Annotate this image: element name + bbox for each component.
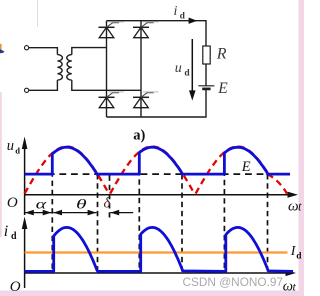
svg-text:O: O bbox=[10, 279, 21, 295]
label u_d (plot) bbox=[7, 138, 20, 156]
transformer T primary terminal bottom bbox=[25, 88, 29, 92]
dashed vertical firing 2 bbox=[138, 152, 140, 273]
label I_d bbox=[290, 244, 303, 261]
svg-text:E: E bbox=[241, 159, 251, 175]
label R bbox=[216, 46, 227, 63]
dashed vertical sine zero delta bbox=[109, 176, 111, 218]
thyristor VT1 bbox=[99, 22, 125, 38]
dashed E level line bbox=[25, 173, 283, 175]
svg-text:d: d bbox=[180, 11, 186, 21]
svg-text:i: i bbox=[4, 223, 8, 240]
thyristor VT2 bbox=[133, 92, 159, 108]
label i_d (circuit) bbox=[174, 4, 186, 21]
red dashed sine tail bbox=[268, 174, 288, 194]
label delta bbox=[104, 196, 112, 212]
label a) caption bbox=[133, 128, 145, 144]
cursor artifact top-left bbox=[0, 44, 5, 53]
ud plot x-axis bbox=[25, 192, 298, 198]
svg-text:CSDN @NONO.97: CSDN @NONO.97 bbox=[183, 275, 283, 289]
dashed vertical extinction 2 bbox=[181, 174, 183, 272]
page background pink bottom edge bbox=[0, 291, 304, 296]
svg-text:u: u bbox=[7, 138, 14, 154]
id plot y-axis bbox=[22, 217, 28, 289]
wire secondary top to node a (bridge left leg midpoint) bbox=[72, 48, 107, 55]
current arrow i_d on top rail bbox=[189, 18, 198, 24]
svg-text:i: i bbox=[174, 4, 178, 19]
blue ud waveform bbox=[25, 147, 290, 175]
svg-text:t: t bbox=[298, 199, 302, 213]
svg-text:E: E bbox=[217, 80, 228, 97]
orange average current line I_d bbox=[25, 251, 288, 253]
svg-text:d: d bbox=[15, 146, 20, 156]
svg-text:a): a) bbox=[133, 128, 145, 144]
thyristor VT3 bbox=[133, 22, 159, 38]
id plot x-axis bbox=[25, 270, 296, 276]
label omega-t (id plot) bbox=[283, 278, 297, 294]
red dashed sine full curve bbox=[25, 147, 268, 194]
dashed vertical firing 3 bbox=[223, 152, 225, 272]
ud plot y-axis bbox=[22, 137, 28, 216]
svg-text:d: d bbox=[184, 69, 190, 79]
svg-text:δ: δ bbox=[104, 196, 112, 212]
wire secondary bottom to node b (bridge right leg midpoint) bbox=[72, 80, 141, 90]
wire primary top lead bbox=[29, 48, 58, 55]
theta measure arrow bbox=[53, 210, 96, 216]
wire top rail (positive dc bus) bbox=[107, 21, 207, 46]
page background pink right edge bbox=[299, 0, 305, 296]
svg-text:ω: ω bbox=[288, 198, 299, 214]
battery E bbox=[198, 86, 214, 89]
svg-text:R: R bbox=[216, 46, 227, 63]
label alpha bbox=[36, 197, 47, 212]
label i_d (plot) bbox=[4, 223, 17, 242]
svg-text:d: d bbox=[296, 251, 302, 261]
dashed vertical extinction 3 bbox=[267, 174, 269, 272]
dashed vertical extinction 1 bbox=[97, 174, 99, 272]
label theta bbox=[76, 197, 87, 212]
transformer T primary winding bbox=[57, 55, 62, 81]
svg-text:ω: ω bbox=[283, 278, 293, 294]
label O (ud origin) bbox=[7, 195, 18, 211]
label u_d (circuit) bbox=[175, 61, 191, 79]
alpha measure arrow bbox=[25, 210, 52, 216]
faint screen line top bbox=[37, 0, 39, 27]
svg-text:u: u bbox=[175, 61, 182, 76]
transformer T primary terminal top bbox=[25, 46, 29, 50]
page background pink left sliver bbox=[0, 92, 2, 237]
svg-text:O: O bbox=[7, 195, 18, 211]
svg-text:α: α bbox=[36, 197, 47, 212]
blue id waveform bbox=[25, 227, 293, 271]
wire bridge left leg bbox=[106, 21, 108, 117]
label O (id origin) bbox=[10, 279, 21, 295]
voltage arrow u_d bbox=[189, 39, 196, 101]
dashed vertical firing 1 bbox=[51, 153, 53, 273]
resistor R bbox=[203, 46, 210, 64]
thyristor VT4 bbox=[99, 92, 125, 108]
label omega-t (ud plot) bbox=[288, 198, 302, 214]
delta measure arrow bbox=[110, 210, 133, 216]
label E (plot) bbox=[241, 159, 251, 175]
transformer T secondary winding bbox=[67, 55, 72, 81]
wire primary bottom lead bbox=[29, 80, 58, 90]
watermark bbox=[183, 275, 283, 289]
svg-text:d: d bbox=[11, 231, 17, 242]
wire R to battery bbox=[205, 64, 207, 86]
wire bottom rail (negative dc bus) bbox=[107, 89, 207, 117]
wire bridge right leg bbox=[140, 21, 142, 117]
svg-text:θ: θ bbox=[76, 197, 87, 212]
label E (battery) bbox=[217, 80, 228, 97]
